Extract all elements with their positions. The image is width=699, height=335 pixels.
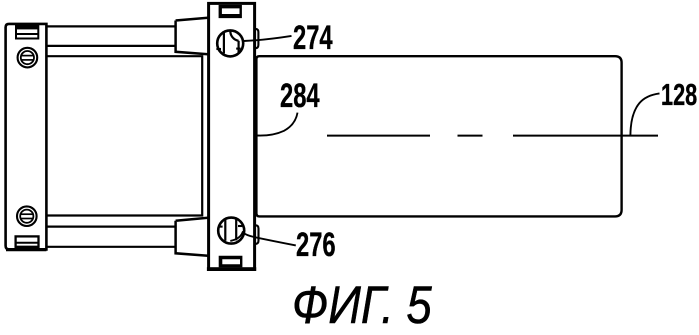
top clamp block xyxy=(176,18,208,54)
bottom clamp block xyxy=(176,218,208,256)
bottom edge thick bar of middle plate xyxy=(207,267,256,271)
caption ФИГ. 5 xyxy=(292,280,432,333)
centerline of body 128 xyxy=(327,135,658,137)
middle mounting plate xyxy=(209,3,255,269)
top screw head xyxy=(18,48,38,68)
label 128 xyxy=(661,79,697,110)
bottom screw head xyxy=(17,206,37,226)
leader line to 274 xyxy=(243,36,291,41)
top slot in middle plate xyxy=(219,5,242,18)
leader line to 128 xyxy=(630,93,659,135)
top ear on middle plate xyxy=(255,29,259,48)
bottom bolt circle (276) xyxy=(218,218,244,244)
bottom ear on middle plate xyxy=(255,225,259,244)
label 274 xyxy=(293,21,333,56)
bottom screw tab on left plate xyxy=(15,236,39,250)
top bolt circle (274) xyxy=(216,30,243,56)
cylinder body 128 (rounded rectangle) xyxy=(256,56,621,216)
bottom guide rod xyxy=(46,227,175,247)
leader line to 284 xyxy=(256,113,297,136)
label 284 xyxy=(280,79,320,114)
leader line to 276 xyxy=(230,232,295,245)
left end plate xyxy=(6,24,47,250)
bottom slot in middle plate xyxy=(219,256,243,268)
inner frame edge xyxy=(46,56,202,215)
top screw tab on left plate xyxy=(16,24,39,38)
top guide rod xyxy=(46,26,175,46)
label 276 xyxy=(296,228,336,263)
